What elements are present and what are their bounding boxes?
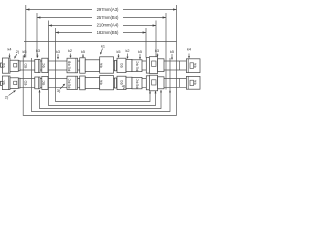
roller E inner edge upper [75,58,77,73]
callout 2) arrow [14,54,16,59]
svg-text:ΦC: ΦC [68,78,72,84]
svg-text:ΦE: ΦE [68,67,72,72]
block D upper [42,58,48,72]
svg-text:k1: k1 [101,45,105,49]
k label arrows [9,49,191,61]
coupling body lower [149,75,157,91]
section G lower [85,77,100,88]
coupling collar lower [146,76,149,90]
tab square B lower [14,81,17,84]
coupling collar upper [146,58,149,74]
bracket arrowheads [39,90,172,93]
extension line left A3 [25,5,27,58]
roller E upper [67,58,78,73]
bottom bracket U5 [56,28,151,102]
dimension line B4 [37,17,166,19]
svg-text:k5: k5 [22,50,26,54]
reference line [24,41,177,43]
svg-text:k2: k2 [125,49,129,53]
coupling right lower [158,77,164,89]
svg-text:k5: k5 [81,50,85,54]
arrowheads dimension lines [26,8,29,10]
extension line left B4 [36,13,38,58]
collar mid lower [115,78,117,88]
extension line right A4 [155,21,157,58]
end block upper [186,59,200,73]
wide roller lower [100,76,114,90]
svg-text:k3: k3 [155,49,159,53]
svg-text:k3: k3 [36,49,40,53]
tab square B upper [14,63,17,67]
svg-text:ΦD: ΦD [120,62,124,68]
callout 2) bottom left [5,90,16,99]
shaft line right upper [179,61,181,70]
collar lower [18,78,20,88]
dimension line A3 [26,9,177,11]
dimension line A4 [49,25,157,27]
collar mid upper [115,60,117,70]
block A upper [2,58,10,73]
svg-text:k5: k5 [170,50,174,54]
diameter labels rotated [2,60,197,88]
extension line right B5 [145,28,147,58]
end block tab lower [190,80,194,85]
svg-text:ΦE: ΦE [135,84,139,89]
extension line right B4 [165,13,167,90]
svg-text:ΦE: ΦE [135,67,139,72]
roller E inner edge lower [75,76,77,89]
k1 diagonal leader [100,49,102,55]
svg-text:k4: k4 [7,48,11,52]
svg-text:297mm(A3): 297mm(A3) [97,7,119,12]
roller F upper [80,58,86,73]
block D lower [42,76,48,89]
svg-text:257mm(B4): 257mm(B4) [97,15,119,20]
bottom bracket U1 [23,5,176,115]
svg-text:ΦD: ΦD [24,63,28,69]
block A lower [2,76,10,90]
block B upper [10,60,18,71]
shaft line right lower [179,79,181,88]
roller C upper [35,59,40,72]
coupling inner box upper [152,61,156,66]
roller C inner edge upper [38,59,40,72]
block B lower [10,78,18,89]
section G upper [85,60,100,72]
roller F lower [80,76,86,90]
block A inner edge upper [8,58,10,73]
coupling body upper [149,57,157,74]
block H upper [117,58,126,72]
roller C inner edge lower [38,77,40,89]
bottom bracket U2 [32,58,171,112]
bottom bracket U3 [40,90,162,109]
k labels row [7,45,191,55]
block J upper [132,60,142,72]
block A inner edge lower [8,76,10,90]
block H lower [117,76,126,89]
end block lower [186,76,200,89]
end block tab upper [190,63,194,69]
bottom bracket U4 [49,21,156,106]
block J lower [132,77,142,88]
svg-text:k5: k5 [138,50,142,54]
end block inner edge upper [187,59,189,73]
coupling right upper [158,59,164,72]
roller C lower [35,77,40,89]
svg-text:ΦD: ΦD [24,80,28,86]
coupling inner box lower [152,80,156,85]
svg-text:182mm(B5): 182mm(B5) [97,30,119,35]
svg-text:ΦB: ΦB [68,61,72,66]
wide roller upper [100,57,114,73]
block I upper [126,59,132,71]
end block inner edge lower [187,76,189,89]
dimension line B5 [56,32,147,34]
upper shaft [2,61,200,70]
lower shaft [2,79,200,88]
svg-text:k3: k3 [56,50,60,54]
callout 4) [122,84,126,90]
inner details [9,58,194,90]
svg-text:k2: k2 [68,49,72,53]
svg-text:ΦC: ΦC [135,78,139,84]
svg-text:ΦC: ΦC [42,62,46,68]
left stub lower [1,81,3,85]
roller E lower [67,76,78,89]
dimension labels [97,7,119,35]
svg-text:ΦE: ΦE [68,84,72,89]
svg-text:ΦC: ΦC [135,60,139,66]
svg-text:ΦC: ΦC [42,80,46,86]
svg-text:k4: k4 [187,48,191,52]
left stub upper [1,63,3,67]
svg-text:k5: k5 [116,50,120,54]
callout 3) [57,84,65,93]
block I lower [126,77,132,88]
svg-text:210mm(A4): 210mm(A4) [97,23,119,28]
collar upper [18,61,20,71]
